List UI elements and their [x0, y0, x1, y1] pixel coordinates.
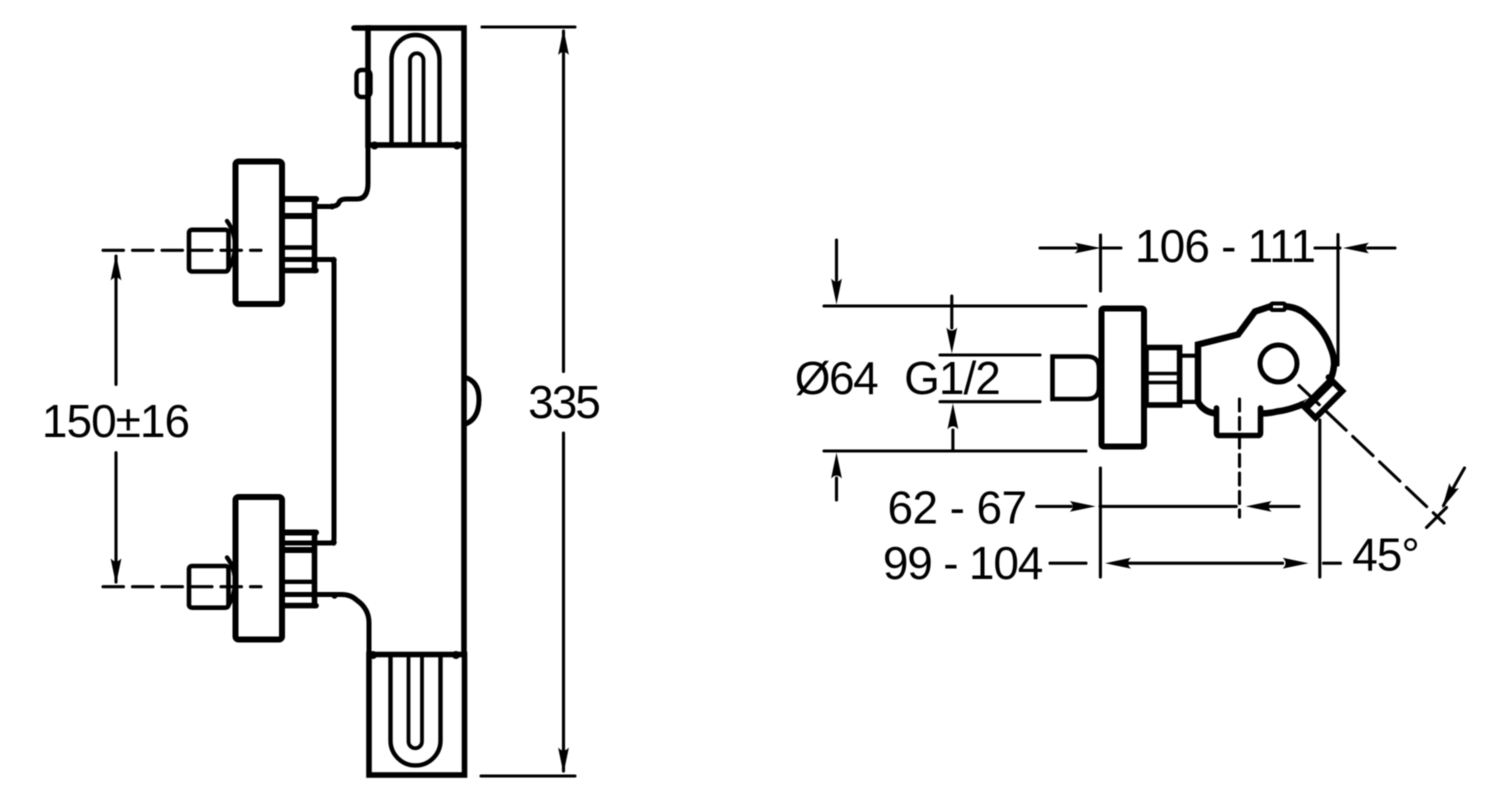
- 62-67 extension line: [1099, 468, 1102, 577]
- bottom box outer U slot: [391, 655, 441, 766]
- side flange disc: [1102, 309, 1145, 447]
- G1/2 leader lines: [940, 355, 1040, 402]
- upper stub bottom edge + mid body left edge: [284, 260, 334, 544]
- lower cone seat: [227, 558, 235, 608]
- lower centerline: [103, 585, 261, 588]
- bump arc on right edge: [464, 377, 479, 425]
- upper inlet block: [189, 230, 229, 272]
- top box inner U slot: [410, 53, 424, 145]
- svg-text:106 - 111: 106 - 111: [1135, 220, 1315, 272]
- dimension 335 arrows: [558, 29, 569, 55]
- index notch on top: [1271, 304, 1285, 311]
- dimension 335 extension top: [482, 25, 575, 28]
- junction dots top box bottom edge: [329, 142, 461, 660]
- svg-text:45°: 45°: [1352, 529, 1419, 581]
- upper centerline: [103, 249, 261, 252]
- lower stub bottom edge + S-curve to bottom box: [284, 595, 369, 656]
- svg-text:Ø64: Ø64: [795, 352, 878, 404]
- lower escutcheon flange: [236, 497, 283, 640]
- G1/2 nipple: [1053, 357, 1100, 400]
- 45° curved arrow: [1444, 468, 1465, 506]
- upper escutcheon flange: [236, 162, 283, 305]
- bottom box inner U slot: [409, 655, 423, 749]
- bottom escutcheon box: [369, 655, 465, 776]
- hose axis dashed line: [1238, 399, 1241, 517]
- 45° angle tick: [1427, 508, 1447, 528]
- 45° spout: [1302, 377, 1344, 419]
- 106-111 dimension line: [1040, 246, 1395, 249]
- Ø64 extension lines: [824, 306, 1086, 451]
- top box outer U slot: [392, 35, 440, 145]
- svg-text:335: 335: [528, 376, 599, 428]
- lower hex nut: [284, 533, 316, 606]
- upper cone seat: [227, 221, 235, 271]
- shower outlet block: [1217, 408, 1261, 436]
- clip tab on left of top box: [357, 70, 371, 97]
- svg-text:150±16: 150±16: [42, 395, 189, 447]
- svg-text:99 - 104: 99 - 104: [883, 537, 1043, 589]
- dimension 335 line: [562, 31, 565, 771]
- 99-104 dimension line: [1050, 562, 1341, 565]
- side union nut: [1146, 348, 1180, 406]
- dimension 150±16 arrows: [111, 255, 122, 281]
- top escutcheon box: [354, 28, 464, 145]
- lower inlet block: [189, 566, 229, 608]
- 45° axis dashed line: [1299, 386, 1444, 524]
- temperature knob inner circle: [1260, 345, 1297, 382]
- Ø64 dimension arrows: [835, 240, 838, 500]
- svg-text:62 - 67: 62 - 67: [887, 482, 1026, 534]
- G1/2 arrows: [952, 296, 953, 450]
- valve head outline: [1198, 307, 1334, 414]
- dimension 150±16 line: [114, 256, 117, 582]
- 106-111 extension lines: [1101, 235, 1339, 366]
- svg-text:G1/2: G1/2: [904, 352, 1000, 404]
- upper hex nut: [284, 199, 316, 271]
- 62-67 dimension line: [1037, 505, 1299, 508]
- body right edge: [461, 145, 467, 655]
- 99-104 extension line: [1318, 420, 1321, 577]
- spacer ring: [1180, 356, 1198, 402]
- dimension 335 extension bottom: [481, 774, 575, 777]
- body left edge upper step: [315, 146, 368, 207]
